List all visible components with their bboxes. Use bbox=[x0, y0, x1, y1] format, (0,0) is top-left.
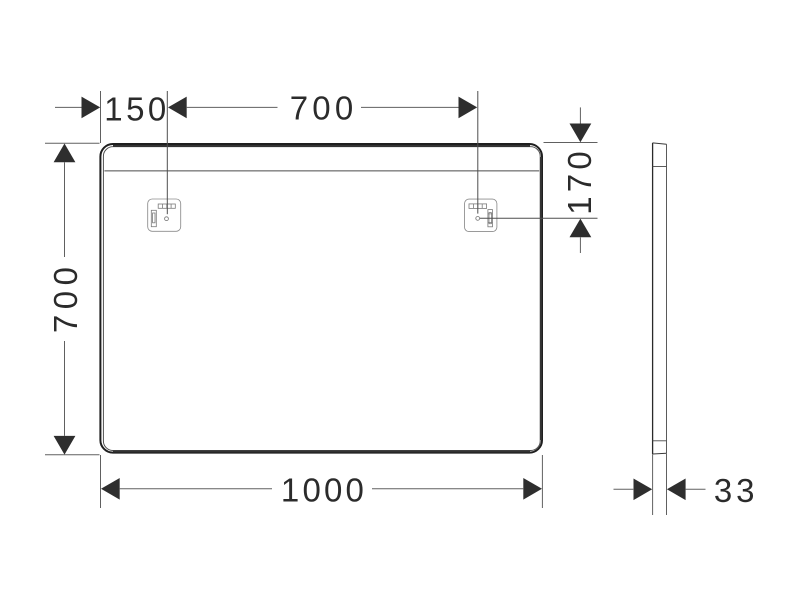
right mounting bracket outline bbox=[465, 199, 497, 232]
dimension 700: extension line through right bracket bbox=[477, 91, 479, 214]
dimension 33: label bbox=[714, 472, 759, 509]
dimension 170: lower dimension line stub bbox=[579, 237, 581, 253]
dimension 1000: left arrowhead bbox=[101, 478, 120, 500]
right bracket slot bar bbox=[488, 210, 493, 227]
dimension 1000: dimension line left segment bbox=[120, 488, 272, 490]
dimension 700 left: top extension line bbox=[45, 142, 100, 144]
svg-text:33: 33 bbox=[714, 472, 759, 509]
dimension 150: extension line at mirror left edge bbox=[100, 91, 102, 143]
dimension 33: right extension line below side view bbox=[666, 453, 668, 515]
dimension 700 left: down arrowhead bbox=[54, 436, 76, 455]
dimension 1000: dimension line right segment bbox=[372, 488, 523, 490]
dimension 33: left extension line below side view bbox=[652, 454, 654, 515]
right bracket screw hole bbox=[476, 217, 480, 221]
dimension 170: bottom extension line from bracket hole bbox=[480, 217, 598, 219]
dimension 700 left: dimension line lower segment bbox=[64, 341, 66, 436]
dimension 170: down arrowhead bbox=[570, 124, 592, 143]
dimension 33: right outside arrow tail bbox=[686, 488, 706, 490]
dimension 700 top: left arrowhead bbox=[168, 97, 187, 119]
dimension 1000: right arrowhead bbox=[523, 478, 542, 500]
dimension 150/700: extension line through left bracket bbox=[166, 91, 168, 214]
svg-text:170: 170 bbox=[561, 147, 598, 215]
svg-text:150: 150 bbox=[104, 91, 170, 128]
dimension 1000: right extension line bbox=[541, 455, 543, 508]
side view bottom edge bbox=[653, 452, 667, 455]
side view right edge bbox=[666, 144, 668, 453]
dimension 33: left arrowhead bbox=[634, 479, 653, 501]
dimension 700 left: label (rotated) bbox=[47, 262, 84, 334]
dimension 1000: left extension line bbox=[100, 455, 102, 508]
dimension 700 top: dimension line right segment bbox=[361, 106, 459, 108]
dimension 150: outside arrow tail bbox=[55, 106, 82, 108]
dimension 33: right arrowhead bbox=[667, 479, 686, 501]
mirror front view outer outline bbox=[100, 144, 542, 453]
side view left edge bbox=[652, 143, 654, 454]
mirror front view inner edge bbox=[103, 146, 541, 451]
dimension 170: top extension line from mirror edge bbox=[544, 142, 598, 144]
left mounting bracket outline bbox=[148, 199, 181, 231]
dimension 700 left: up arrowhead bbox=[54, 144, 76, 163]
dimension 170: up arrowhead bbox=[570, 219, 592, 238]
dimension 700 left: bottom extension line bbox=[45, 454, 100, 456]
dimension 170: label (rotated) bbox=[561, 147, 598, 215]
right bracket terminal bar bbox=[469, 204, 487, 209]
left bracket screw hole bbox=[165, 217, 169, 221]
left bracket slot bar bbox=[151, 210, 156, 226]
dimension 150: right-pointing arrowhead bbox=[82, 97, 101, 119]
svg-text:1000: 1000 bbox=[281, 472, 367, 509]
dimension 700 top: label bbox=[290, 90, 358, 127]
svg-text:700: 700 bbox=[47, 262, 84, 334]
dimension 700 left: dimension line upper segment bbox=[64, 162, 66, 257]
dimension 700 top: dimension line left segment bbox=[187, 106, 278, 108]
svg-text:700: 700 bbox=[290, 90, 358, 127]
dimension 700 top: right arrowhead bbox=[459, 97, 478, 119]
dimension 150: label bbox=[104, 91, 170, 128]
dimension 170: upper dimension line stub bbox=[579, 107, 581, 123]
mirror front glass seam line bbox=[104, 170, 539, 172]
left bracket terminal bar bbox=[158, 204, 175, 208]
side view top edge bbox=[653, 143, 667, 144]
side view top seam bbox=[653, 166, 667, 168]
dimension 33: left outside arrow tail bbox=[614, 488, 634, 490]
side view bottom seam bbox=[653, 440, 667, 442]
dimension 1000: label bbox=[281, 472, 367, 509]
